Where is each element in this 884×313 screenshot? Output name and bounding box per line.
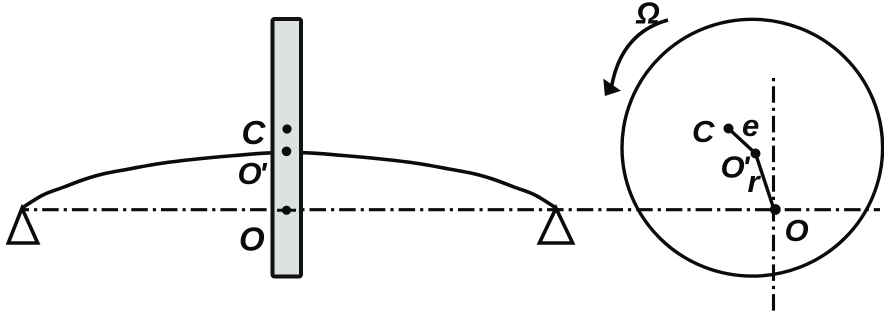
svg-text:r: r [748,164,762,199]
deflected shaft curve [22,152,556,208]
node O dot with centerline stub (side view) [277,209,296,212]
svg-text:C: C [692,114,715,149]
horizontal dash-dot centerline [22,208,880,211]
rotation arrowhead [604,80,620,95]
svg-text:C: C [242,114,267,151]
node C dot (front view) [724,124,734,134]
node C dot (side view) [282,124,291,133]
svg-text:O: O [239,220,265,257]
svg-text:O: O [785,213,809,248]
node O' dot (side view) [282,147,292,157]
rotation arrow arc [612,20,669,87]
disk (side view rectangle) [273,19,302,277]
vertical dash-dot centerline [772,78,775,311]
right support triangle [539,208,572,243]
node O dot (front view) [770,204,781,215]
svg-text:e: e [742,108,759,143]
left support triangle [8,208,37,243]
disk front-view circle [622,19,883,276]
node O' dot (front view) [751,149,761,159]
svg-text:O': O' [238,156,269,191]
eccentricity line C to O' [729,129,756,154]
svg-text:Ω: Ω [635,0,660,31]
radius line O' to O [756,154,775,210]
